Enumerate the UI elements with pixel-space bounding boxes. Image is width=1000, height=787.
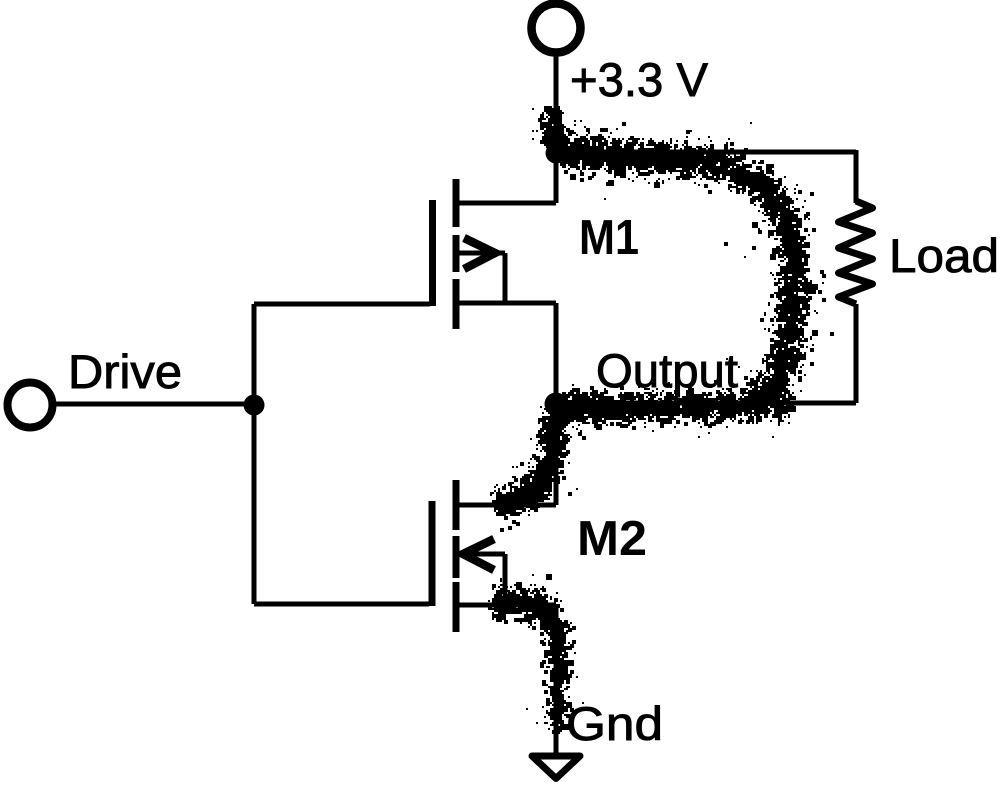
svg-text:M1: M1	[579, 210, 639, 265]
svg-text:Drive: Drive	[68, 345, 182, 398]
svg-text:+3.3 V: +3.3 V	[570, 53, 709, 106]
svg-text:M2: M2	[577, 511, 647, 566]
svg-text:Gnd: Gnd	[566, 697, 663, 750]
svg-text:Load: Load	[889, 229, 999, 282]
svg-text:Output: Output	[596, 344, 738, 397]
